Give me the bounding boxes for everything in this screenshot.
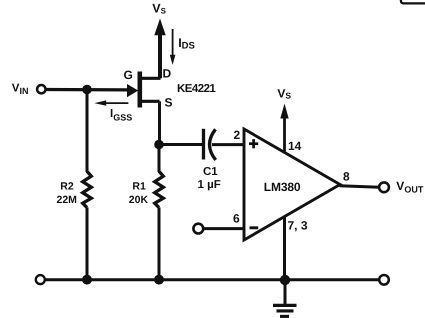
svg-text:LM380: LM380	[264, 180, 301, 194]
wire pin 7,3 to ground rail	[283, 217, 286, 281]
junction R2 rail	[82, 275, 92, 285]
junction ground rail	[280, 275, 290, 285]
wire node B to C1	[159, 143, 203, 146]
terminal bottom right	[379, 275, 389, 285]
wire Vs to pin 14 with arrow	[280, 104, 288, 153]
wire terminal to pin 6	[204, 227, 245, 230]
bottom rail wire	[45, 278, 380, 281]
svg-text:6: 6	[233, 212, 240, 226]
svg-text:R2: R2	[60, 180, 74, 192]
resistor R1	[155, 145, 164, 280]
resistor R2	[83, 90, 92, 280]
svg-text:14: 14	[288, 139, 302, 153]
plus input mark	[249, 139, 258, 148]
junction R1 rail	[154, 275, 164, 285]
svg-text:R1: R1	[132, 180, 146, 192]
capacitor C1	[204, 129, 216, 160]
junction node A	[82, 85, 92, 95]
svg-text:22M: 22M	[57, 194, 78, 206]
wire drain to Vs with arrow	[154, 19, 165, 79]
terminal bottom left	[36, 275, 45, 284]
svg-text:C1: C1	[203, 166, 218, 178]
svg-text:G: G	[124, 68, 133, 82]
transistor Q1 KE4221 JFET	[138, 72, 161, 108]
terminal Vin	[37, 85, 45, 93]
minus input mark	[250, 226, 259, 229]
ground	[273, 280, 297, 316]
op-amp U1 LM380	[244, 129, 340, 240]
svg-text:20K: 20K	[129, 194, 149, 206]
svg-text:D: D	[163, 67, 172, 81]
junction node B	[154, 140, 164, 150]
wire output pin 8	[340, 186, 380, 188]
wire C1 to pin 2	[212, 143, 244, 146]
terminal minus input	[193, 224, 203, 234]
wire source down to node B	[158, 101, 161, 144]
corner of UI box at top right	[401, 0, 425, 3]
svg-text:2: 2	[234, 128, 241, 142]
wire Vin to gate with arrowhead	[45, 84, 138, 97]
current arrow Ids	[170, 29, 176, 65]
terminal Vout	[379, 182, 389, 192]
svg-text:7, 3: 7, 3	[288, 219, 308, 233]
current arrow Igss	[94, 100, 128, 105]
svg-text:S: S	[165, 96, 173, 110]
svg-text:KE4221: KE4221	[177, 83, 216, 95]
svg-text:1 µF: 1 µF	[198, 179, 221, 191]
svg-text:8: 8	[343, 170, 350, 184]
